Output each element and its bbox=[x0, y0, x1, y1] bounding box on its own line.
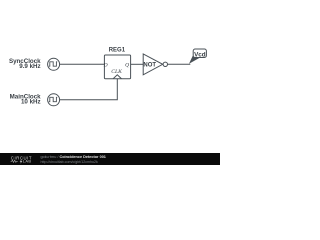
svg-text:9.9 kHz: 9.9 kHz bbox=[19, 63, 40, 70]
svg-text:CLK: CLK bbox=[111, 69, 122, 75]
svg-text:REG1: REG1 bbox=[109, 48, 126, 54]
svg-text:Q: Q bbox=[125, 63, 129, 69]
svg-text:goku·tmu / Coincidence Detecto: goku·tmu / Coincidence Detector 001 bbox=[41, 155, 106, 159]
svg-text:LAB: LAB bbox=[23, 159, 32, 164]
svg-text:http://circuitlab.com/c/gbt/12: http://circuitlab.com/c/gbt/12cmhu2k bbox=[41, 160, 99, 164]
svg-text:D: D bbox=[103, 63, 108, 69]
svg-text:Vcd: Vcd bbox=[194, 51, 206, 58]
svg-text:NOT: NOT bbox=[143, 62, 156, 68]
svg-text:10 kHz: 10 kHz bbox=[21, 98, 41, 105]
